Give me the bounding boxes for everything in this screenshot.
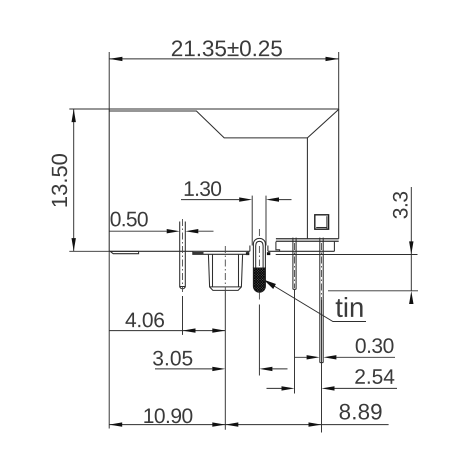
svg-text:4.06: 4.06 <box>125 309 165 332</box>
dim 2.54 line with tails <box>267 387 398 389</box>
body top lip and chamfer <box>109 109 339 137</box>
dim 10.90 arrow right <box>212 422 225 426</box>
tin leader arrowhead <box>264 280 276 289</box>
boss flange <box>193 251 248 254</box>
tin leader line <box>264 280 366 322</box>
notch at band left end <box>276 242 280 252</box>
dim 3.05 line <box>155 368 288 370</box>
flange left end cap <box>193 252 204 254</box>
pin P1 centerline <box>182 219 184 292</box>
capsule centerline <box>258 229 260 302</box>
svg-text:10.90: 10.90 <box>143 405 193 428</box>
dim 0.50 line with tail <box>109 230 213 232</box>
dim 21.35 arrow right <box>326 57 339 61</box>
body bottom line left part <box>109 250 250 252</box>
capsule pin outer <box>253 238 265 268</box>
dim 4.06 arrow right <box>212 328 225 332</box>
dim 21.35 ext right <box>338 52 340 109</box>
dim 13.50 line <box>73 109 75 251</box>
dim 21.35 ext left <box>108 52 110 109</box>
body left edge <box>108 109 110 251</box>
svg-text:tin: tin <box>335 292 364 323</box>
tin plated zone hatch <box>253 268 265 292</box>
dim 3.3 ext bottom <box>328 290 418 292</box>
front-right face left edge <box>306 138 308 239</box>
boss centerline <box>224 246 226 291</box>
svg-text:3.3: 3.3 <box>389 191 412 219</box>
square hole outer <box>315 215 329 229</box>
dim 3.3 line upper <box>410 187 412 291</box>
square hole inner bottom edge <box>316 227 327 229</box>
dim 1.30 ext right <box>265 196 267 246</box>
black block right of capsule slot <box>267 252 270 255</box>
dim 1.30 ext left <box>251 196 253 246</box>
capsule inner wall <box>256 241 263 268</box>
capsule slot stub left <box>249 246 251 252</box>
dim 0.30 arrow right <box>323 355 336 359</box>
left foot <box>110 251 138 253</box>
pin B centerline extension <box>321 363 323 433</box>
body right edge <box>338 109 340 239</box>
dim 13.50 ext bottom <box>69 250 109 252</box>
black block left of capsule slot <box>246 252 249 255</box>
dim 0.30 line with tails <box>295 356 396 358</box>
dim 4.06 arrow left <box>183 328 196 332</box>
dim 8.89 arrow left <box>225 422 238 426</box>
dim 3.3 arrow down <box>409 241 413 254</box>
dim 8.89 arrow right <box>309 422 322 426</box>
seating plane line (3.3 extension) <box>276 254 418 256</box>
dim 3.3 arrow up <box>409 291 413 304</box>
boss inner wall right <box>238 254 240 287</box>
svg-text:13.50: 13.50 <box>47 153 72 208</box>
dim 10.90 arrow left <box>109 422 122 426</box>
dim 13.50 arrow top <box>72 109 76 122</box>
dim 2.54 arrow left <box>282 386 295 390</box>
dim 21.35 line <box>109 58 339 60</box>
svg-text:21.35±0.25: 21.35±0.25 <box>171 36 283 61</box>
dim 1.30 arrow left <box>239 197 252 201</box>
dim 1.30 line with tails <box>181 199 292 201</box>
dim 21.35 arrow left <box>109 57 122 61</box>
right step vertical <box>333 242 335 252</box>
svg-text:1.30: 1.30 <box>183 178 221 201</box>
pin P1 bottom <box>180 287 186 289</box>
boss outer profile <box>208 254 242 290</box>
dim 8.89 line <box>225 424 388 426</box>
dim 4.06 line <box>109 330 225 332</box>
pin B centerline <box>321 243 323 300</box>
svg-text:3.05: 3.05 <box>152 347 193 370</box>
dim 1.30 arrow right <box>266 197 279 201</box>
dim 10.90 line <box>109 424 225 426</box>
pin B bottom <box>320 362 323 364</box>
pin P1 right edge <box>184 222 186 289</box>
body top edge <box>109 108 339 110</box>
svg-text:2.54: 2.54 <box>354 366 395 389</box>
square hole inner right edge <box>326 216 328 228</box>
dim 3.05 arrow left <box>212 367 225 371</box>
pin A bottom <box>293 288 296 290</box>
dim 0.50 arrow right <box>185 229 198 233</box>
bottom plate top edge right section <box>276 238 339 240</box>
body left edge lower extension <box>108 251 110 428</box>
dim 13.50 ext top <box>69 108 109 110</box>
svg-text:8.89: 8.89 <box>339 399 383 424</box>
dim 0.50 arrow left <box>167 229 180 233</box>
pin A left edge <box>292 238 294 290</box>
boss inner wall left <box>212 254 214 287</box>
svg-text:0.50: 0.50 <box>110 208 148 231</box>
svg-text:0.30: 0.30 <box>355 335 394 358</box>
body bottom line right part <box>268 250 334 252</box>
pin P1 left edge <box>180 222 182 289</box>
pin B left edge <box>319 238 321 363</box>
dim 3.05 arrow right <box>259 367 272 371</box>
capsule slot stub right <box>267 246 269 252</box>
dim 0.30 arrow left <box>307 355 320 359</box>
boss inner bottom line <box>210 286 241 288</box>
pin A centerline <box>294 243 296 288</box>
dim 13.50 arrow bottom <box>72 238 76 251</box>
bottom plate bottom edge right section <box>276 240 339 242</box>
pin A centerline extension <box>294 289 296 393</box>
pin A right edge <box>295 238 297 290</box>
pin B right edge <box>322 238 324 363</box>
dim 2.54 arrow right <box>322 386 335 390</box>
